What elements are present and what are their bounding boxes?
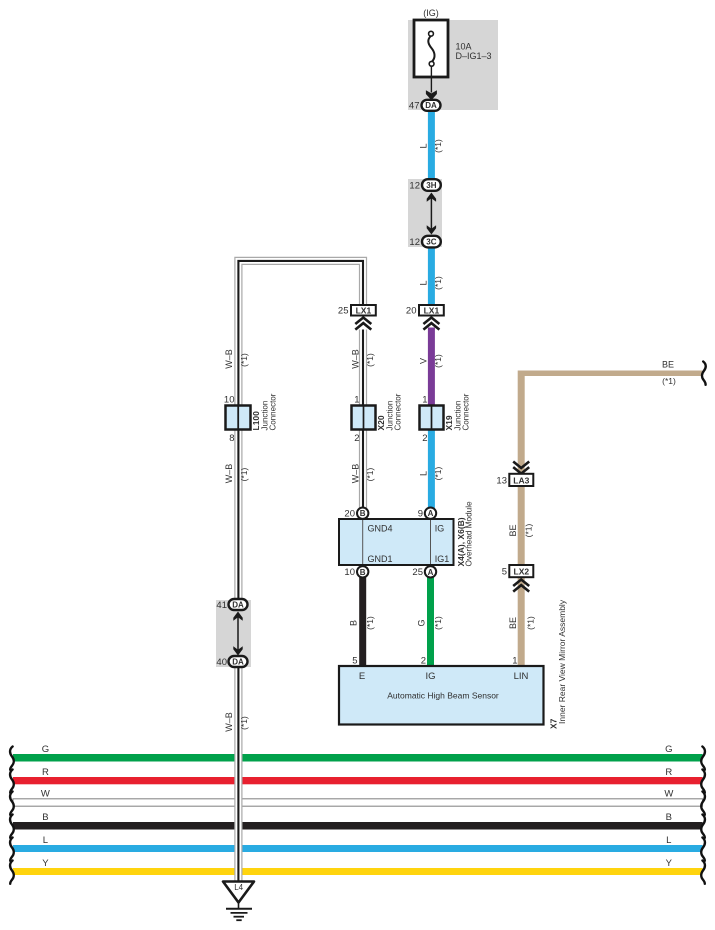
svg-text:W: W: [664, 789, 673, 800]
svg-text:12: 12: [409, 180, 420, 191]
wire label B (*1) row6: [349, 616, 376, 630]
svg-text:B: B: [360, 568, 366, 577]
svg-text:GND4: GND4: [368, 524, 393, 534]
svg-text:(*1): (*1): [365, 616, 375, 630]
connector 41 DA: [216, 599, 247, 611]
svg-text:Y: Y: [42, 858, 49, 869]
junction connector L100: [224, 393, 278, 444]
wire label W-B (*1) left row4: [224, 464, 249, 484]
svg-text:L: L: [418, 280, 428, 285]
wire W-B from shield point 25 LX1 down through X20 to Overhead Module pin 20: [359, 330, 367, 509]
wire BE beige vertical run to sensor pin 1 LIN: [518, 371, 525, 667]
svg-text:DA: DA: [232, 657, 244, 666]
svg-text:Overhead Module: Overhead Module: [465, 501, 474, 567]
squiggle end of BE wire at right edge: [702, 362, 706, 385]
svg-text:R: R: [665, 767, 672, 778]
bus band L: [10, 835, 705, 861]
svg-text:L: L: [666, 835, 671, 846]
pass-through arrow 3H to 3C: [427, 193, 436, 235]
bus band G: [10, 744, 705, 770]
svg-text:13: 13: [496, 476, 507, 487]
svg-text:(IG): (IG): [423, 8, 439, 18]
svg-text:IG: IG: [425, 671, 435, 682]
shield connector 5 LX2 with chevron: [502, 565, 534, 592]
svg-text:W–B: W–B: [350, 349, 360, 369]
svg-text:25: 25: [338, 306, 349, 317]
wire L blue X19 to Overhead Module pin 9: [428, 420, 435, 509]
wire label BE (*1) mid row5: [508, 523, 534, 537]
svg-text:BE: BE: [508, 617, 518, 629]
bus band R: [10, 767, 705, 793]
svg-text:L: L: [418, 471, 428, 476]
svg-text:BE: BE: [508, 524, 518, 536]
svg-text:(*1): (*1): [662, 376, 676, 386]
svg-text:V: V: [418, 358, 428, 364]
pass-through arrow 41 to 40: [233, 612, 242, 656]
connector 40 DA: [216, 656, 247, 668]
wire fuse output with arrow to DA47: [426, 66, 437, 100]
wire L blue fuse DA47 to 3H: [428, 110, 435, 182]
svg-text:(*1): (*1): [526, 616, 536, 630]
svg-text:DA: DA: [425, 101, 437, 110]
svg-text:Y: Y: [666, 858, 673, 869]
svg-text:Connector: Connector: [394, 393, 403, 430]
wire G green Overhead Module pin 25 to sensor pin 2: [427, 576, 434, 666]
connector 47 DA: [409, 100, 441, 112]
svg-text:(*1): (*1): [433, 139, 443, 153]
svg-text:LX1: LX1: [356, 305, 372, 315]
wire label BE (*1) row6: [508, 616, 536, 630]
svg-text:GND1: GND1: [368, 554, 393, 564]
svg-text:L: L: [43, 835, 48, 846]
svg-text:1: 1: [512, 656, 517, 667]
node (IG) label: [423, 8, 439, 18]
svg-text:20: 20: [344, 508, 355, 519]
svg-text:Automatic High Beam Sensor: Automatic High Beam Sensor: [387, 691, 499, 701]
pin 10 B of overhead module: [344, 566, 368, 578]
svg-text:R: R: [42, 767, 49, 778]
svg-text:Inner Rear View Mirror Assembl: Inner Rear View Mirror Assembly: [557, 599, 567, 724]
svg-text:(*1): (*1): [365, 467, 375, 481]
module X4(A),X6(B) Overhead Module: [339, 501, 474, 567]
svg-text:(*1): (*1): [433, 466, 443, 480]
svg-text:3H: 3H: [426, 181, 436, 190]
svg-text:Connector: Connector: [269, 393, 278, 430]
svg-text:3C: 3C: [426, 238, 436, 247]
wire label L (*1) row1: [418, 139, 443, 153]
bus band Y: [10, 858, 705, 884]
svg-text:G: G: [416, 619, 426, 626]
svg-text:10: 10: [224, 395, 235, 406]
component X7 Automatic High Beam Sensor: [339, 599, 567, 729]
svg-text:LX1: LX1: [424, 305, 440, 315]
wire label BE (*1) top horizontal: [662, 359, 676, 386]
svg-text:A: A: [428, 568, 434, 577]
svg-text:25: 25: [412, 567, 423, 578]
svg-text:D–IG1–3: D–IG1–3: [456, 51, 492, 61]
svg-text:2: 2: [354, 433, 359, 444]
svg-text:5: 5: [352, 656, 357, 667]
svg-text:L100: L100: [251, 411, 261, 431]
wire label V (*1): [418, 354, 443, 368]
connector 12 3C: [409, 236, 440, 248]
wire label L (*1) row4: [418, 466, 443, 480]
svg-text:L4: L4: [234, 883, 243, 892]
wire label G (*1) row6: [416, 616, 443, 630]
svg-text:(*1): (*1): [239, 716, 249, 730]
svg-text:2: 2: [421, 656, 426, 667]
wire label W-B (*1) middle row3: [350, 349, 375, 369]
svg-text:A: A: [428, 509, 434, 518]
svg-text:W–B: W–B: [224, 712, 234, 732]
svg-text:W–B: W–B: [224, 464, 234, 484]
fuse 10A D-IG1-3: [414, 20, 448, 77]
svg-text:(*1): (*1): [433, 616, 443, 630]
wire BE beige horizontal from right edge: [518, 371, 703, 377]
svg-text:40: 40: [216, 657, 227, 668]
svg-text:L: L: [418, 143, 428, 148]
svg-text:BE: BE: [662, 359, 674, 369]
svg-text:10: 10: [344, 567, 355, 578]
svg-text:G: G: [42, 744, 49, 755]
svg-text:2: 2: [422, 433, 427, 444]
svg-text:W–B: W–B: [350, 464, 360, 484]
svg-text:IG1: IG1: [435, 554, 450, 564]
wire B black Overhead Module pin 10 to sensor pin 5: [359, 576, 366, 666]
svg-text:DA: DA: [232, 600, 244, 609]
svg-text:LX2: LX2: [514, 567, 530, 577]
bus band W: [10, 789, 705, 815]
svg-text:B: B: [360, 509, 366, 518]
svg-text:47: 47: [409, 101, 420, 112]
wire label L (*1) row2: [418, 276, 443, 290]
svg-text:(*1): (*1): [239, 353, 249, 367]
svg-text:B: B: [349, 620, 359, 626]
wire V violet 20 LX1 to X19: [428, 328, 435, 420]
shaded block: 3H/3C pass-through area: [408, 179, 442, 247]
ground L4: [223, 882, 254, 921]
svg-text:W–B: W–B: [224, 349, 234, 369]
wire label W-B (*1) left row3: [224, 349, 249, 369]
fuse label 10A D-IG1-3: [456, 42, 492, 61]
svg-text:(*1): (*1): [433, 354, 443, 368]
svg-text:B: B: [42, 812, 48, 823]
shaded block: ignition fuse area: [408, 20, 498, 110]
junction connector X19: [420, 393, 471, 444]
shield connector 25 LX1: [338, 305, 376, 330]
svg-text:E: E: [359, 671, 365, 682]
svg-text:(*1): (*1): [524, 523, 534, 537]
svg-text:X20: X20: [376, 415, 386, 430]
svg-text:(*1): (*1): [433, 276, 443, 290]
svg-text:1: 1: [422, 395, 427, 406]
wire label W-B (*1) left row7: [224, 712, 249, 732]
wire L blue 3C to 20 LX1: [428, 244, 435, 306]
wire W-B ground run: left vertical + top horizontal + drop to LX1(25): [238, 261, 363, 882]
shield connector 20 LX1: [406, 305, 444, 330]
svg-text:1: 1: [354, 395, 359, 406]
connector 12 3H: [409, 179, 440, 191]
pin 25 A of overhead module: [412, 566, 436, 578]
svg-text:(*1): (*1): [239, 467, 249, 481]
wire label W-B (*1) middle row4: [350, 464, 375, 484]
svg-text:B: B: [666, 812, 672, 823]
svg-text:9: 9: [418, 508, 423, 519]
svg-text:Connector: Connector: [462, 393, 471, 430]
svg-text:W: W: [41, 789, 50, 800]
junction connector X20: [352, 393, 403, 444]
pin 9 A of overhead module: [418, 508, 436, 520]
svg-text:41: 41: [216, 600, 227, 611]
bus band B: [10, 812, 705, 838]
svg-text:20: 20: [406, 306, 417, 317]
svg-text:(*1): (*1): [365, 353, 375, 367]
svg-text:12: 12: [409, 237, 420, 248]
svg-text:LA3: LA3: [513, 475, 529, 485]
svg-text:8: 8: [229, 433, 234, 444]
svg-text:G: G: [665, 744, 672, 755]
pin 20 B of overhead module: [344, 508, 368, 520]
shaded block: DA 41/40 pass-through area: [216, 600, 251, 667]
svg-text:X19: X19: [444, 415, 454, 430]
svg-text:5: 5: [502, 567, 507, 578]
svg-text:LIN: LIN: [514, 671, 529, 682]
svg-text:IG: IG: [435, 524, 445, 534]
shield connector 13 LA3 with chevron: [496, 462, 533, 487]
